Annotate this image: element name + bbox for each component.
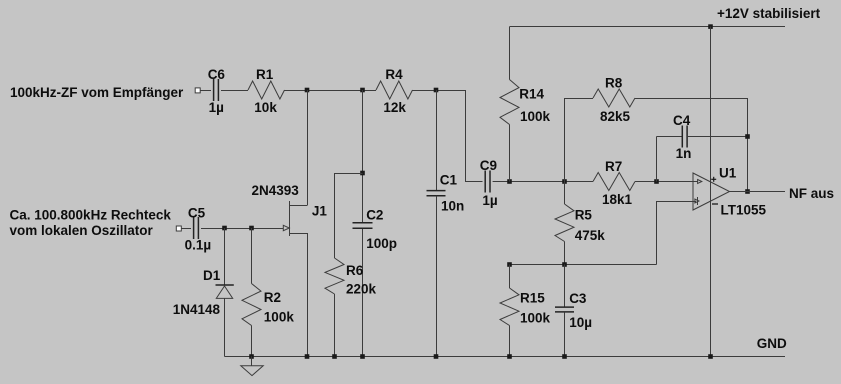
terminal input 2 xyxy=(176,226,181,231)
svg-text:100k: 100k xyxy=(264,310,295,325)
wire C9 to R7 xyxy=(493,181,593,183)
svg-text:Ca. 100.800kHz Rechteck: Ca. 100.800kHz Rechteck xyxy=(10,207,172,222)
svg-text:10k: 10k xyxy=(254,100,277,115)
wire terminal1 to C6 xyxy=(200,90,211,92)
svg-text:R7: R7 xyxy=(605,159,622,174)
node: R6 bottom junction xyxy=(332,354,337,359)
capacitor C2 100p xyxy=(353,90,397,357)
svg-text:12k: 12k xyxy=(383,100,406,115)
svg-text:10µ: 10µ xyxy=(569,315,592,330)
node: C4 tap junction xyxy=(654,179,659,184)
terminal input 1 xyxy=(195,88,200,93)
resistor R15 100k xyxy=(500,265,551,357)
svg-text:10n: 10n xyxy=(441,199,464,214)
svg-text:100p: 100p xyxy=(366,236,397,251)
node: R2/ground junction xyxy=(249,354,254,359)
resistor R2 100k xyxy=(242,228,294,357)
node: supply tap on +12V rail xyxy=(708,24,713,29)
capacitor C9 1µ xyxy=(480,158,498,208)
resistor R7 18k1 xyxy=(593,159,635,207)
svg-text:NF aus: NF aus xyxy=(789,186,834,201)
resistor R4 12k xyxy=(376,67,413,115)
node: source junction xyxy=(305,354,310,359)
svg-text:C9: C9 xyxy=(480,158,497,173)
resistor R6 220k xyxy=(325,173,377,357)
svg-text:C1: C1 xyxy=(440,172,458,187)
node: C3 bottom junction xyxy=(562,354,567,359)
wire corner down to C9 line xyxy=(465,90,467,182)
svg-text:100kHz-ZF vom Empfänger: 100kHz-ZF vom Empfänger xyxy=(10,85,184,100)
node: C4/R8 junction xyxy=(745,134,750,139)
svg-text:100k: 100k xyxy=(520,109,551,124)
+12V rail xyxy=(510,6,821,27)
svg-text:2N4393: 2N4393 xyxy=(252,183,300,198)
wire R7 to op-amp inverting input xyxy=(635,181,693,183)
wire C5 to JFET gate xyxy=(201,228,284,230)
wire lower bias line xyxy=(510,264,657,266)
wire to C9 xyxy=(465,181,483,183)
GND rail xyxy=(225,336,788,357)
net label: Ca. 100.800kHz Rechteck vom lokalen Oszillator (input 2) xyxy=(10,207,172,238)
svg-text:vom lokalen Oszillator: vom lokalen Oszillator xyxy=(10,223,154,238)
svg-text:220k: 220k xyxy=(346,282,377,297)
svg-text:C2: C2 xyxy=(366,207,383,222)
node: R2 junction xyxy=(249,226,254,231)
svg-text:18k1: 18k1 xyxy=(602,192,633,207)
node: R6 branch junction xyxy=(360,171,365,176)
wire C6 to R1 xyxy=(221,90,248,92)
capacitor C5 0.1µ xyxy=(185,205,212,252)
capacitor C6 xyxy=(208,67,226,115)
node: C1 bottom junction xyxy=(434,354,439,359)
wire bias to op-amp + input xyxy=(657,201,694,265)
svg-text:D1: D1 xyxy=(203,268,221,283)
wire op-amp output to NF aus xyxy=(730,186,835,201)
svg-text:R5: R5 xyxy=(575,208,593,223)
resistor R1 10k xyxy=(248,67,285,115)
node: supply bottom junction xyxy=(708,354,713,359)
gate arrow of J1 xyxy=(283,225,289,230)
svg-text:R2: R2 xyxy=(264,290,281,305)
transistor J1 2N4393 n-JFET xyxy=(252,90,328,357)
svg-text:R1: R1 xyxy=(256,67,274,82)
node: R14 bottom junction xyxy=(507,179,512,184)
node: feedback to output junction xyxy=(745,189,750,194)
svg-text:475k: 475k xyxy=(575,228,606,243)
wire R1 to R4 xyxy=(285,90,377,92)
svg-text:R6: R6 xyxy=(346,263,364,278)
svg-text:82k5: 82k5 xyxy=(600,109,631,124)
node: C2 bottom junction xyxy=(360,354,365,359)
resistor R14 100k from +12V xyxy=(500,27,551,182)
svg-text:GND: GND xyxy=(757,336,787,351)
wire terminal2 to C5 xyxy=(181,228,191,230)
diode D1 1N4148 xyxy=(173,228,234,357)
node: drain junction xyxy=(305,88,310,93)
svg-text:1µ: 1µ xyxy=(482,193,497,208)
node: C3 top junction xyxy=(562,262,567,267)
svg-text:U1: U1 xyxy=(719,166,737,181)
node: R15 bottom junction xyxy=(507,354,512,359)
svg-text:1µ: 1µ xyxy=(209,100,224,115)
svg-text:R4: R4 xyxy=(385,67,403,82)
node: R8/R5 junction xyxy=(562,179,567,184)
capacitor C3 10µ xyxy=(555,265,592,357)
svg-text:100k: 100k xyxy=(520,310,551,325)
op-amp U1 LT1055 xyxy=(693,166,767,218)
ground symbol xyxy=(241,357,263,376)
svg-text:+12V stabilisiert: +12V stabilisiert xyxy=(717,6,821,21)
capacitor C1 10n to ground xyxy=(427,90,465,357)
node: C2 top junction xyxy=(360,88,365,93)
svg-text:J1: J1 xyxy=(312,204,328,219)
svg-text:C4: C4 xyxy=(673,113,691,128)
svg-text:C5: C5 xyxy=(188,205,206,220)
node: D1 junction xyxy=(222,226,227,231)
wire R4 to corner xyxy=(413,90,466,92)
svg-text:C3: C3 xyxy=(569,291,587,306)
capacitor C4 1n feedback xyxy=(657,113,748,181)
net label: 100kHz-ZF vom Empfänger (input 1) xyxy=(10,85,184,100)
svg-text:LT1055: LT1055 xyxy=(721,203,767,218)
svg-text:R14: R14 xyxy=(519,86,544,101)
svg-text:1n: 1n xyxy=(676,146,692,161)
resistor R8 82k5 feedback xyxy=(565,76,748,192)
svg-text:1N4148: 1N4148 xyxy=(173,302,221,317)
node: R15 top junction xyxy=(507,262,512,267)
resistor R5 475k xyxy=(555,182,605,265)
svg-text:R8: R8 xyxy=(605,76,623,91)
op-amp supply wire xyxy=(710,27,712,357)
svg-text:R15: R15 xyxy=(520,290,545,305)
svg-text:C6: C6 xyxy=(208,67,226,82)
node: C1 junction xyxy=(434,88,439,93)
svg-text:0.1µ: 0.1µ xyxy=(185,237,212,252)
